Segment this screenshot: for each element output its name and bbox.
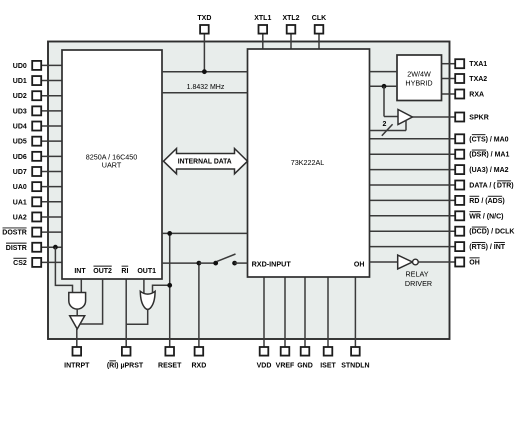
pin ISET (bottom): [327, 277, 329, 347]
svg-text:(RI) µPRST: (RI) µPRST: [107, 363, 144, 370]
pin UA1 (left): [41, 201, 62, 203]
wire: reset net between UART and modem: [162, 232, 248, 234]
svg-text:UA2: UA2: [13, 214, 27, 221]
svg-text:VDD: VDD: [257, 363, 272, 370]
node: junction on RESET line: [167, 283, 172, 288]
pin UD5 (left): [41, 140, 62, 142]
pin RTS/INT (right): [370, 246, 456, 248]
inverter G2: [70, 316, 85, 329]
pin UD1 (left): [41, 80, 62, 82]
svg-text:UD3: UD3: [13, 108, 27, 115]
pin DOSTR (left): [41, 231, 62, 233]
hybrid transformer block: [397, 55, 442, 101]
relay driver inverter: [370, 261, 398, 263]
svg-text:XTL2: XTL2: [282, 15, 299, 22]
svg-text:2W/4W: 2W/4W: [407, 70, 431, 79]
svg-text:XTL1: XTL1: [254, 15, 271, 22]
pin XTL1 (top): [262, 34, 264, 49]
IC U2: 73K222AL modem block: [248, 49, 370, 277]
pin uPRST (bottom): [125, 279, 127, 347]
pin TXD (top): [203, 34, 205, 72]
pin DISTR (left): [41, 246, 62, 248]
svg-text:RI: RI: [121, 268, 128, 275]
svg-text:DATA / (DTR): DATA / (DTR): [469, 183, 513, 190]
svg-text:RESET: RESET: [158, 363, 182, 370]
pin CS2 (left): [41, 261, 62, 263]
wire: volume bus to amplifier: [370, 130, 407, 132]
amplifier A1 (speaker driver): [398, 110, 412, 125]
svg-text:73K222AL: 73K222AL: [291, 158, 325, 167]
pin RXD (bottom): [198, 263, 200, 347]
svg-text:(DCD) / DCLK: (DCD) / DCLK: [469, 229, 514, 236]
svg-text:UD5: UD5: [13, 139, 27, 146]
pin OH (right): [418, 261, 455, 263]
wire: clock net lower: [162, 92, 248, 94]
svg-text:INT: INT: [74, 268, 86, 275]
pin VREF (bottom): [284, 277, 286, 347]
node: TXD junction on clock net: [202, 69, 207, 74]
pin UD7 (left): [41, 170, 62, 172]
svg-text:UD7: UD7: [13, 169, 27, 176]
svg-text:(RTS) / INT: (RTS) / INT: [469, 244, 506, 251]
svg-text:RD / (ADS): RD / (ADS): [469, 198, 504, 205]
wire: OUT1 to OR gate: [143, 279, 145, 294]
wire: tap down to amplifier: [383, 86, 385, 116]
svg-text:OH: OH: [469, 260, 480, 267]
svg-text:TXD: TXD: [197, 15, 211, 22]
svg-text:OH: OH: [354, 261, 365, 268]
svg-text:UART: UART: [102, 160, 122, 169]
svg-text:TXA2: TXA2: [469, 76, 487, 83]
IC U1: 8250A/16C450 UART block: [62, 50, 162, 279]
pin TXA1 (right): [442, 63, 456, 65]
svg-text:UD2: UD2: [13, 93, 27, 100]
pin UD2 (left): [41, 95, 62, 97]
node: speaker tap junction: [382, 84, 387, 89]
svg-text:2: 2: [382, 121, 386, 128]
wire: to switch pole: [199, 262, 216, 264]
svg-text:RXA: RXA: [469, 92, 484, 99]
wire: INT to AND gate: [80, 279, 82, 293]
pin DCD/DCLK (right): [370, 230, 456, 232]
svg-text:(DSR) / MA1: (DSR) / MA1: [469, 152, 509, 159]
pin UD4 (left): [41, 125, 62, 127]
svg-text:UA0: UA0: [13, 184, 27, 191]
pin SPKR (right): [412, 116, 455, 118]
svg-text:RXD-INPUT: RXD-INPUT: [252, 259, 292, 268]
wire: DISTR branch down to AND gate: [53, 245, 58, 250]
pin RXA (right): [442, 93, 456, 95]
pin XTL2 (top): [290, 34, 292, 49]
pin RD/ADS (right): [370, 199, 456, 201]
pin UA3/MA2 (right): [370, 169, 456, 171]
wire: clock net upper (1.8432 MHz): [162, 71, 248, 73]
svg-text:ISET: ISET: [320, 363, 336, 370]
svg-text:VREF: VREF: [276, 363, 295, 370]
svg-text:INTRPT: INTRPT: [64, 363, 90, 370]
svg-text:WR / (N/C): WR / (N/C): [469, 213, 503, 220]
AND gate G1: [69, 293, 86, 310]
pin CTS/MA0 (right): [370, 138, 456, 140]
wire: OR gate right input from reset net: [153, 285, 170, 293]
wire: switch to RXD-INPUT: [235, 262, 248, 264]
switch S1 contact: [232, 261, 237, 266]
switch S1 lever: [217, 254, 236, 261]
svg-text:TXA1: TXA1: [469, 61, 487, 68]
pin WR/NC (right): [370, 215, 456, 217]
wire: AND output to inverter: [76, 309, 78, 316]
pin UD3 (left): [41, 110, 62, 112]
svg-text:UD4: UD4: [13, 124, 27, 131]
svg-text:CLK: CLK: [312, 15, 326, 22]
pin UA2 (left): [41, 216, 62, 218]
svg-text:GND: GND: [297, 363, 313, 370]
svg-text:DISTR: DISTR: [6, 245, 27, 252]
switch S1 pole: [213, 261, 218, 266]
svg-text:(CTS) / MA0: (CTS) / MA0: [469, 136, 508, 143]
bus width slash: [382, 124, 393, 136]
pin DSR/MA1 (right): [370, 153, 456, 155]
pin VDD (bottom): [263, 277, 265, 347]
svg-text:OUT2: OUT2: [93, 268, 112, 275]
svg-text:DRIVER: DRIVER: [405, 279, 432, 288]
pin CLK (top): [318, 34, 320, 49]
pin RESET (bottom): [169, 233, 171, 347]
svg-text:STNDLN: STNDLN: [341, 363, 369, 370]
svg-text:RXD: RXD: [192, 363, 207, 370]
node: RXD junction: [197, 261, 202, 266]
svg-text:DOSTR: DOSTR: [2, 230, 27, 237]
pin UD0 (left): [41, 64, 62, 66]
svg-text:HYBRID: HYBRID: [405, 79, 432, 88]
svg-text:CS2: CS2: [13, 260, 27, 267]
wire: OUT2 feedback to inverter: [80, 279, 102, 324]
svg-text:UD0: UD0: [13, 63, 27, 70]
svg-text:SPKR: SPKR: [469, 115, 488, 122]
pin GND (bottom): [304, 277, 306, 347]
wire: modem to hybrid (lower): [370, 85, 398, 87]
pin STNDLN (bottom): [354, 277, 356, 347]
svg-text:1.8432 MHz: 1.8432 MHz: [187, 84, 225, 91]
svg-text:OUT1: OUT1: [137, 268, 156, 275]
pin TXA2 (right): [442, 78, 456, 80]
svg-text:UD6: UD6: [13, 154, 27, 161]
pin UD6 (left): [41, 155, 62, 157]
wire: UART to switch: [162, 262, 199, 264]
internal data bus double arrow: [164, 149, 248, 174]
wire: modem to hybrid (upper): [370, 71, 398, 73]
wire: OR output to uPRST/RI line: [126, 309, 148, 324]
svg-text:RELAY: RELAY: [405, 270, 428, 279]
svg-text:(UA3) / MA2: (UA3) / MA2: [469, 167, 508, 174]
pin INTRPT (bottom): [76, 329, 78, 347]
pin UA0 (left): [41, 186, 62, 188]
svg-text:INTERNAL DATA: INTERNAL DATA: [178, 158, 232, 165]
shaded board region: [48, 42, 450, 340]
pin DATA/DTR (right): [370, 184, 456, 186]
svg-text:UD1: UD1: [13, 78, 27, 85]
node: junction to RESET pin: [167, 231, 172, 236]
svg-text:UA1: UA1: [13, 199, 27, 206]
